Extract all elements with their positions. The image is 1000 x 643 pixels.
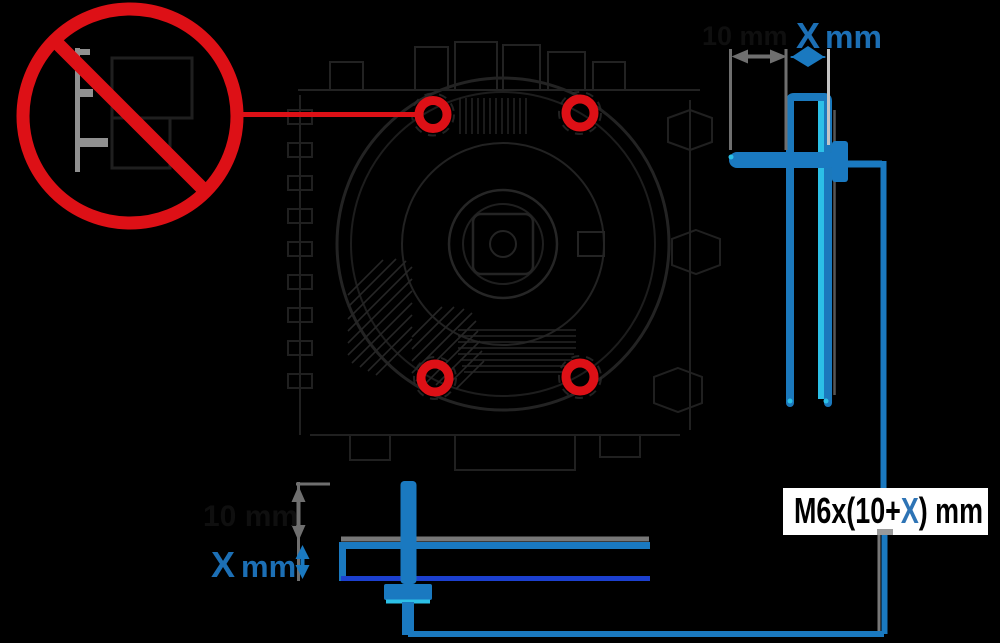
hatch under hub bbox=[458, 330, 576, 372]
bottom lugs bbox=[350, 435, 640, 470]
top lugs bbox=[330, 42, 625, 90]
label box M6 bbox=[783, 488, 988, 535]
svg-text:mm: mm bbox=[825, 19, 882, 55]
flange inner circle bbox=[351, 92, 655, 396]
bottom dimension: tick top bbox=[296, 483, 330, 486]
bottom screw: cyan under head bbox=[386, 600, 430, 604]
hole marker top-left bbox=[419, 101, 447, 129]
pilot circle bbox=[402, 143, 604, 345]
bottom dimension: blue double arrow bbox=[296, 545, 310, 579]
key stub bbox=[578, 232, 604, 256]
boss ring TL bbox=[412, 94, 454, 136]
leader vertical upper bbox=[881, 161, 887, 488]
boss ring BR bbox=[559, 356, 601, 398]
top dimension: extension line right bbox=[785, 49, 788, 150]
hub bore circle bbox=[463, 204, 543, 284]
motor flange line art (faint) bbox=[288, 42, 720, 470]
plate top edge blue bbox=[341, 542, 650, 549]
leader from screw head bbox=[848, 161, 882, 168]
flange top edge bbox=[298, 89, 700, 91]
bottom dimension: gray double arrow bbox=[292, 486, 306, 541]
hole marker bottom-right bbox=[566, 363, 594, 391]
plate left edge bbox=[339, 542, 346, 581]
flange right edge bbox=[689, 100, 691, 430]
bottom-left assembly: plate top edge gray bbox=[341, 537, 649, 542]
red leader line bbox=[239, 112, 417, 117]
svg-text:M6x(10+X) mm: M6x(10+X) mm bbox=[794, 490, 983, 531]
svg-text:mm: mm bbox=[241, 549, 296, 584]
bottom leader stub bbox=[402, 602, 414, 635]
top dimension: gray double arrow bbox=[732, 50, 788, 64]
hole marker bottom-left bbox=[421, 364, 449, 392]
bottom screw: head bbox=[384, 584, 432, 600]
hatch A bbox=[348, 259, 484, 389]
flange big circle bbox=[337, 78, 669, 410]
flange left edge bbox=[299, 95, 301, 435]
label box gray notch bbox=[877, 529, 893, 535]
right screw: tip speck bbox=[729, 155, 734, 160]
right screw: head bbox=[832, 141, 848, 182]
svg-text:X: X bbox=[211, 544, 235, 585]
boss ring BL bbox=[414, 357, 456, 399]
right assembly: customer plate cross-section bbox=[790, 97, 835, 403]
left teeth bbox=[288, 110, 312, 388]
hub square bbox=[473, 214, 533, 274]
shaft center circle bbox=[490, 231, 516, 257]
bottom dimension: extension line bbox=[297, 482, 300, 581]
right hex lugs bbox=[654, 110, 720, 412]
leader vertical lower bbox=[882, 535, 888, 634]
right screw: shaft bbox=[737, 152, 828, 168]
hub circle bbox=[449, 190, 557, 298]
prohibition icon: screw silhouette (dark) bbox=[112, 58, 192, 168]
leader bottom horizontal bbox=[408, 631, 884, 637]
prohibition slash bbox=[54, 40, 207, 193]
plate outline bbox=[790, 97, 828, 403]
top dimension: light extension line bbox=[827, 49, 830, 145]
svg-text:10 mm: 10 mm bbox=[702, 21, 788, 51]
leader gray companion bbox=[878, 530, 881, 634]
top dimension: blue double arrow bbox=[790, 46, 826, 67]
boss ring TR bbox=[559, 92, 601, 134]
prohibition icon: gray screw edge bbox=[78, 48, 109, 172]
svg-text:10 mm: 10 mm bbox=[203, 500, 298, 533]
plate bottom edge navy bbox=[341, 576, 650, 581]
plate cyan highlight bbox=[818, 101, 824, 399]
prohibition circle bbox=[23, 9, 237, 223]
plate line end specks bbox=[788, 399, 793, 404]
bottom screw: shaft bbox=[401, 481, 417, 584]
hole marker top-right bbox=[566, 99, 594, 127]
plate gray fringe bbox=[833, 110, 836, 395]
stripes between top holes bbox=[460, 98, 526, 134]
flange bottom edge bbox=[310, 434, 680, 436]
top dimension: extension line left bbox=[729, 49, 732, 150]
